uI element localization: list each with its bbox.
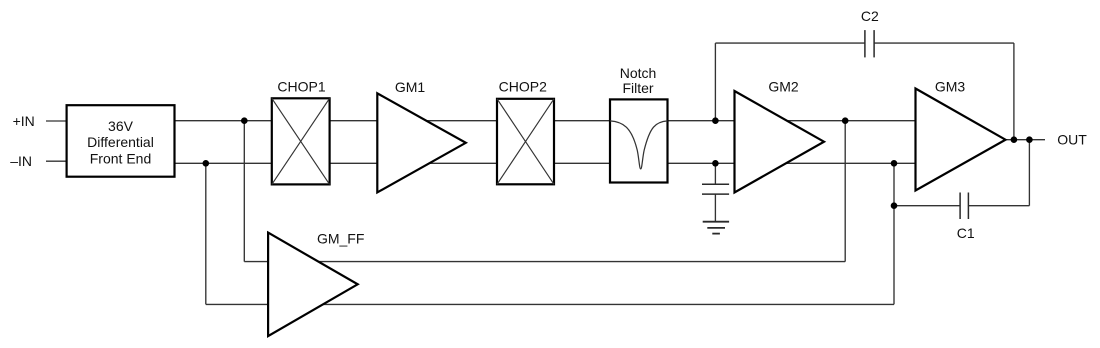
svg-text:Notch: Notch [620, 65, 657, 81]
svg-text:–IN: –IN [10, 153, 32, 169]
svg-text:GM1: GM1 [395, 79, 426, 95]
svg-text:C2: C2 [861, 8, 879, 24]
svg-text:C1: C1 [957, 225, 975, 241]
svg-text:Filter: Filter [622, 80, 653, 96]
svg-text:Differential: Differential [87, 134, 154, 150]
svg-text:GM_FF: GM_FF [317, 230, 364, 246]
svg-text:CHOP2: CHOP2 [499, 78, 547, 94]
svg-text:Front End: Front End [90, 150, 151, 166]
svg-text:+IN: +IN [13, 113, 35, 129]
svg-text:GM2: GM2 [768, 78, 799, 94]
svg-text:CHOP1: CHOP1 [277, 78, 325, 94]
svg-text:OUT: OUT [1057, 132, 1087, 148]
svg-text:GM3: GM3 [935, 78, 966, 94]
svg-text:36V: 36V [108, 118, 134, 134]
